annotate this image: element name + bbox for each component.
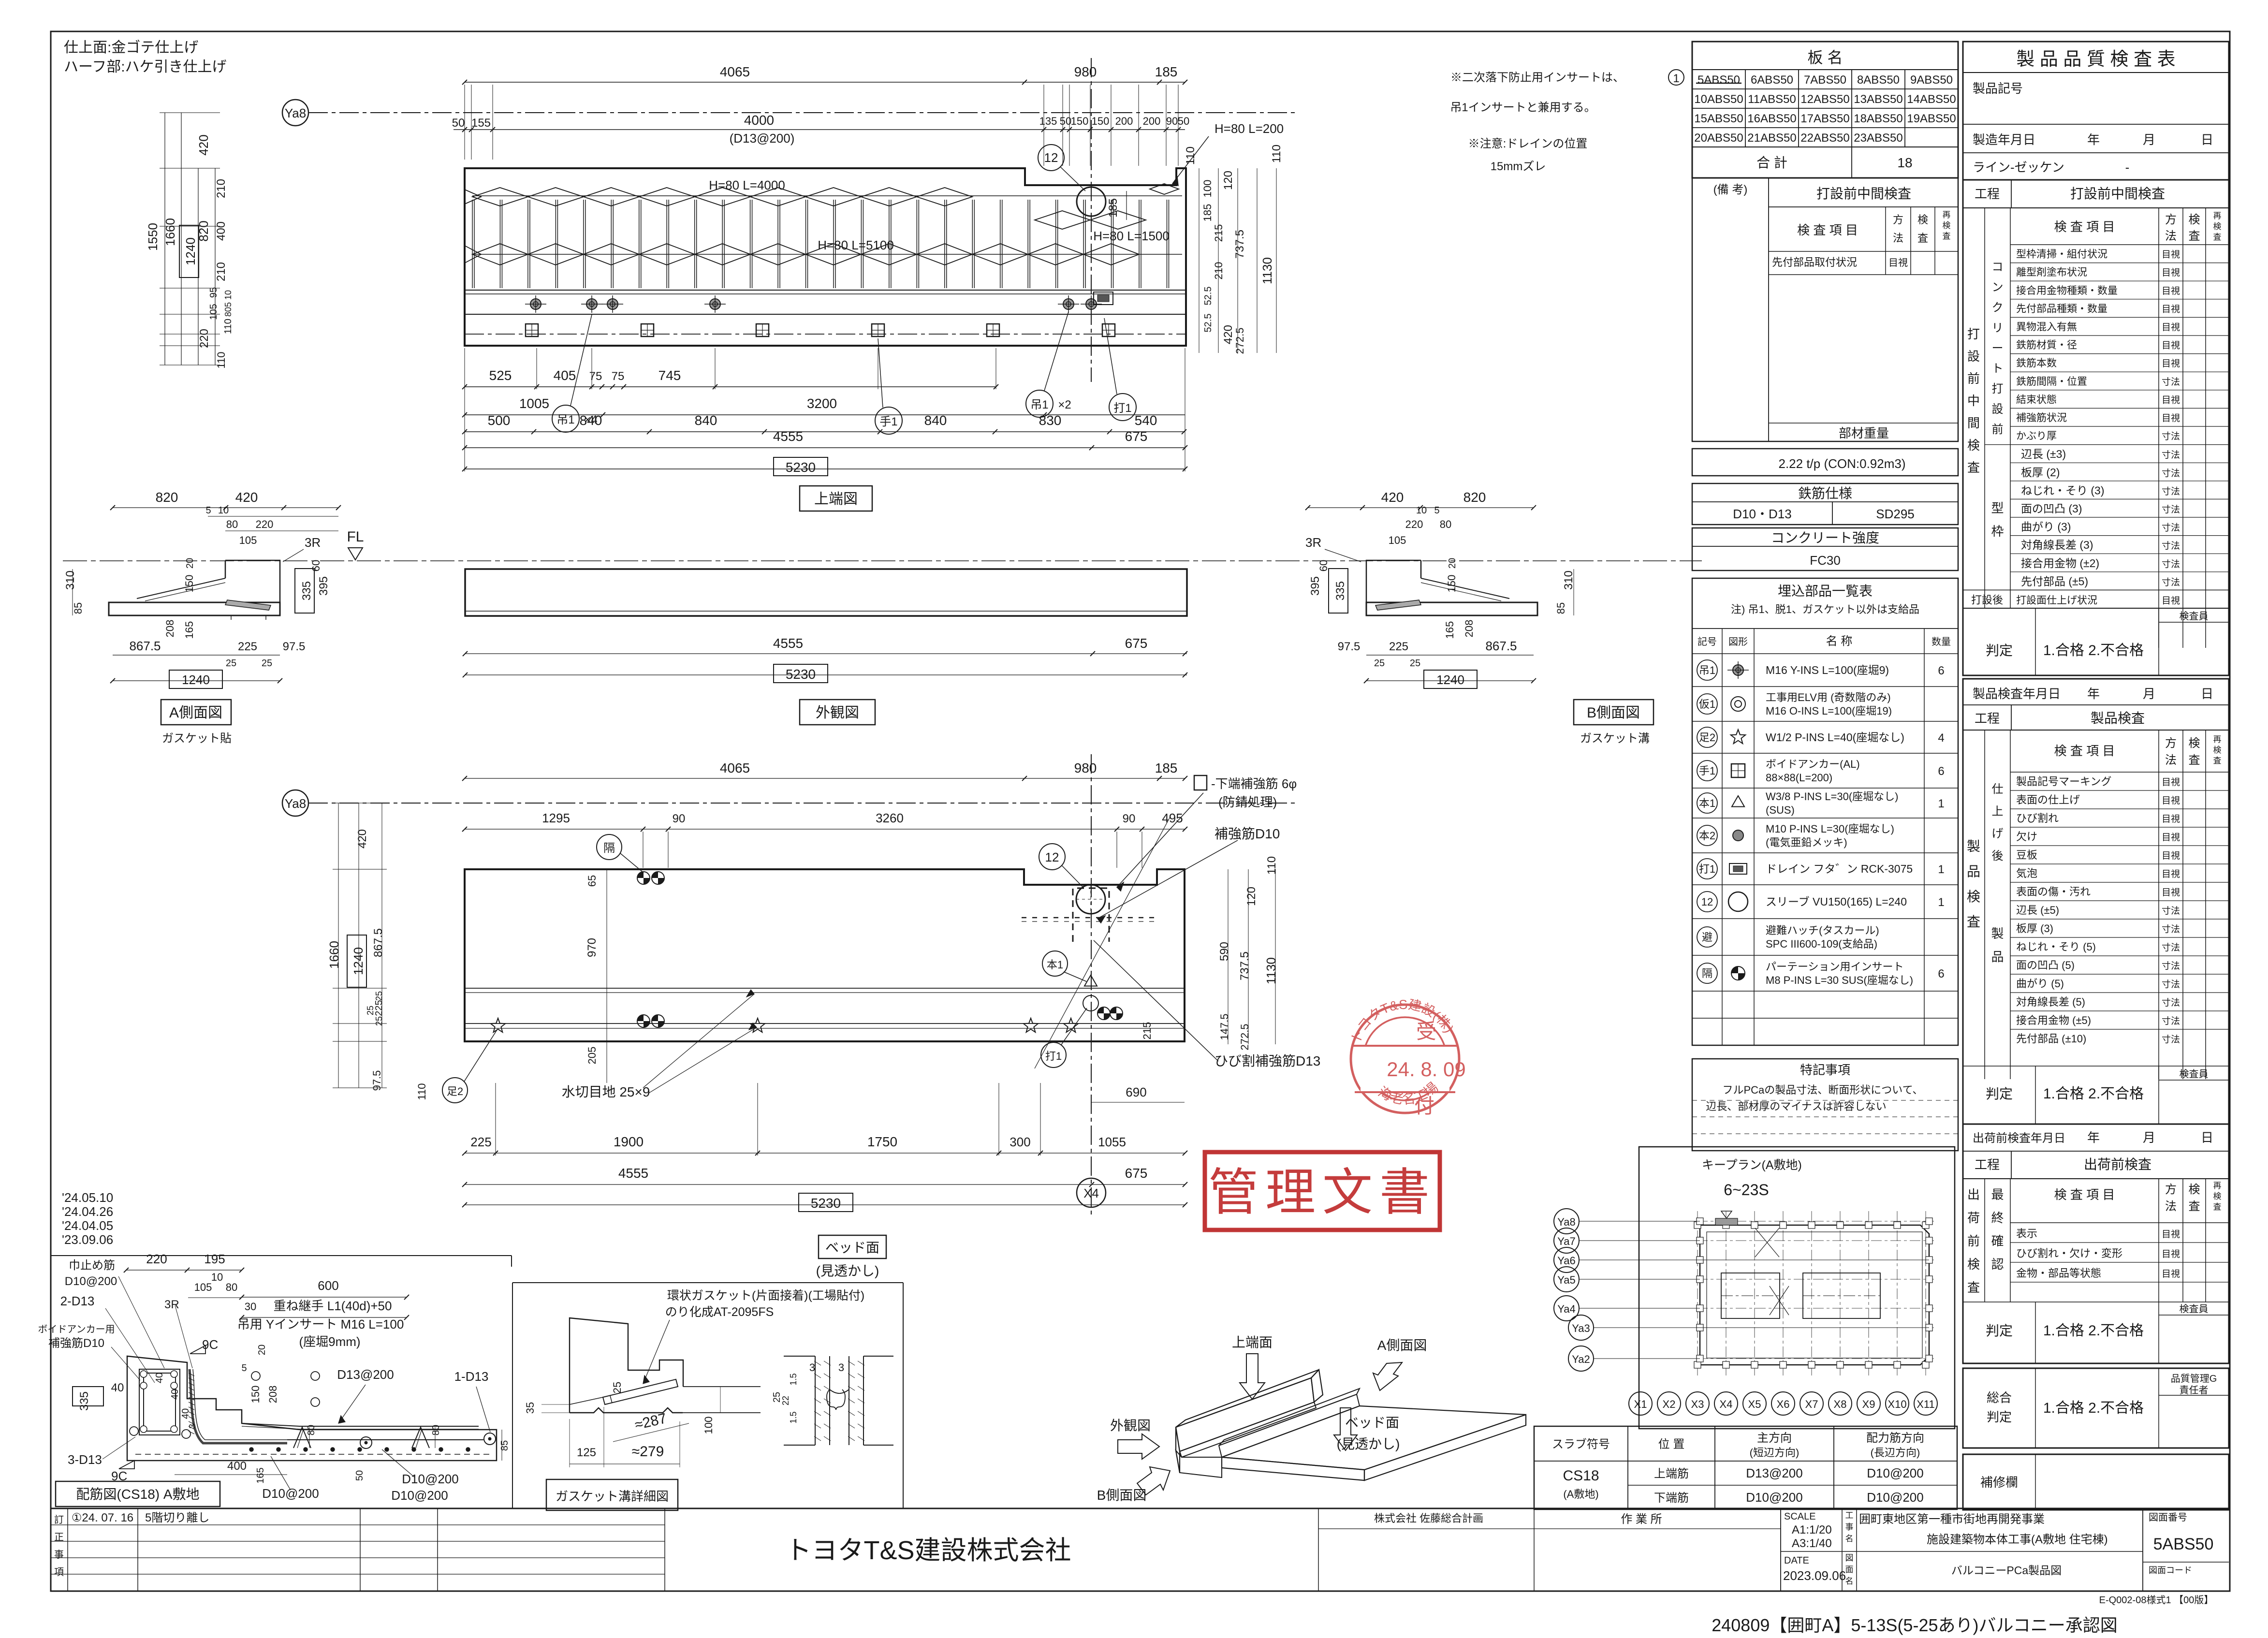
svg-text:事: 事: [54, 1549, 64, 1560]
svg-text:4065: 4065: [720, 760, 750, 775]
svg-text:1660: 1660: [163, 218, 177, 246]
svg-text:製: 製: [1991, 926, 2004, 941]
svg-text:737.5: 737.5: [1238, 951, 1251, 980]
svg-text:板厚 (3): 板厚 (3): [2016, 922, 2053, 935]
svg-text:表示: 表示: [2016, 1228, 2037, 1240]
svg-text:272.5: 272.5: [1234, 327, 1246, 354]
svg-text:ー: ー: [1992, 342, 2004, 355]
svg-text:年: 年: [2087, 1130, 2100, 1145]
svg-text:CS18: CS18: [1563, 1468, 1599, 1484]
svg-text:5ABS50: 5ABS50: [2153, 1535, 2214, 1553]
svg-text:型枠清掃・組付状況: 型枠清掃・組付状況: [2016, 249, 2107, 260]
svg-text:50: 50: [1178, 115, 1189, 127]
svg-text:2-D13: 2-D13: [60, 1294, 95, 1308]
svg-text:工事用ELV用 (奇数階のみ): 工事用ELV用 (奇数階のみ): [1766, 691, 1891, 703]
svg-text:690: 690: [1126, 1085, 1146, 1099]
svg-text:185: 185: [1107, 198, 1120, 218]
svg-text:(長辺方向): (長辺方向): [1871, 1447, 1920, 1459]
svg-text:X7: X7: [1805, 1398, 1818, 1410]
svg-text:上端図: 上端図: [814, 491, 858, 507]
svg-text:4555: 4555: [618, 1166, 648, 1181]
svg-text:(備 考): (備 考): [1713, 183, 1748, 196]
svg-text:接合用金物 (±5): 接合用金物 (±5): [2016, 1014, 2091, 1026]
svg-text:ク: ク: [1992, 301, 2004, 314]
svg-text:目視: 目視: [2162, 286, 2180, 296]
svg-text:査: 査: [1967, 460, 1980, 475]
svg-text:査: 査: [2189, 754, 2200, 767]
svg-text:205: 205: [586, 1047, 598, 1065]
svg-text:12ABS50: 12ABS50: [1800, 93, 1849, 106]
svg-text:745: 745: [658, 368, 681, 383]
svg-text:ひび割れ: ひび割れ: [2016, 812, 2059, 824]
svg-text:220: 220: [146, 1252, 167, 1266]
svg-text:寸法: 寸法: [2162, 1034, 2180, 1045]
svg-text:検 査 項 目: 検 査 項 目: [2054, 219, 2115, 234]
svg-text:中: 中: [1967, 394, 1980, 408]
svg-text:作 業 所: 作 業 所: [1621, 1513, 1662, 1526]
svg-text:675: 675: [1125, 429, 1148, 444]
svg-text:6~23S: 6~23S: [1724, 1181, 1769, 1199]
svg-text:1240: 1240: [1436, 673, 1464, 687]
svg-text:検査員: 検査員: [2180, 611, 2209, 622]
svg-text:100: 100: [1201, 180, 1214, 198]
svg-text:判定: 判定: [1986, 1323, 2013, 1338]
svg-text:400: 400: [215, 221, 228, 241]
svg-text:85: 85: [1555, 602, 1567, 614]
svg-text:110: 110: [1184, 146, 1197, 165]
svg-text:のり化成AT-2095FS: のり化成AT-2095FS: [665, 1305, 774, 1319]
svg-text:335: 335: [78, 1391, 91, 1411]
svg-text:先付部品取付状況: 先付部品取付状況: [1772, 256, 1857, 268]
svg-text:105: 105: [208, 304, 219, 320]
svg-text:D10@200: D10@200: [1746, 1490, 1802, 1505]
svg-text:間: 間: [1967, 416, 1980, 430]
svg-text:株式会社 佐藤総合計画: 株式会社 佐藤総合計画: [1374, 1512, 1483, 1524]
svg-text:3: 3: [809, 1361, 815, 1374]
svg-text:-下端補強筋 6φ: -下端補強筋 6φ: [1211, 776, 1297, 791]
svg-text:避: 避: [1702, 931, 1712, 943]
svg-text:名: 名: [1845, 1577, 1854, 1586]
svg-text:'24.05.10: '24.05.10: [62, 1190, 113, 1205]
svg-text:X1: X1: [1634, 1398, 1647, 1410]
svg-text:80: 80: [306, 1425, 317, 1435]
svg-text:足2: 足2: [1699, 731, 1715, 744]
svg-text:DATE: DATE: [1784, 1555, 1809, 1566]
svg-text:枠: 枠: [1991, 524, 2004, 539]
svg-text:出荷前検査年月日: 出荷前検査年月日: [1973, 1132, 2065, 1145]
svg-text:4555: 4555: [773, 429, 803, 444]
svg-text:隔: 隔: [603, 842, 615, 855]
svg-text:※注意:ドレインの位置: ※注意:ドレインの位置: [1468, 137, 1588, 150]
svg-text:仕: 仕: [1992, 783, 2004, 796]
svg-text:335: 335: [1334, 581, 1347, 600]
svg-text:査: 査: [1917, 232, 1928, 244]
svg-text:トヨタT&S建設株式会社: トヨタT&S建設株式会社: [785, 1536, 1071, 1565]
svg-text:H=80 L=5100: H=80 L=5100: [818, 238, 894, 252]
svg-text:検: 検: [2189, 213, 2200, 226]
svg-text:月: 月: [2143, 132, 2155, 147]
svg-text:バルコニーPCa製品図: バルコニーPCa製品図: [1951, 1564, 2062, 1577]
svg-text:先付部品 (±10): 先付部品 (±10): [2016, 1033, 2086, 1045]
svg-text:検: 検: [2189, 737, 2200, 750]
svg-text:1550: 1550: [146, 223, 160, 251]
svg-text:目視: 目視: [2162, 322, 2180, 333]
svg-text:1.合格 2.不合格: 1.合格 2.不合格: [2043, 1323, 2144, 1339]
svg-text:3R: 3R: [1305, 535, 1321, 550]
svg-text:405: 405: [554, 368, 576, 383]
svg-text:スラブ符号: スラブ符号: [1552, 1438, 1610, 1451]
svg-text:220: 220: [256, 518, 274, 530]
svg-text:420: 420: [1381, 490, 1404, 505]
svg-text:50: 50: [354, 1470, 365, 1481]
svg-text:3R: 3R: [305, 535, 321, 550]
svg-text:737.5: 737.5: [1233, 230, 1246, 259]
svg-text:215: 215: [1141, 1022, 1153, 1040]
svg-text:辺長 (±3): 辺長 (±3): [2021, 448, 2066, 460]
svg-text:25: 25: [262, 658, 272, 669]
svg-text:ひび割れ・欠け・変形: ひび割れ・欠け・変形: [2016, 1247, 2122, 1259]
svg-text:1.5: 1.5: [789, 1411, 798, 1423]
svg-text:40: 40: [111, 1381, 124, 1394]
svg-text:B側面図: B側面図: [1097, 1488, 1147, 1503]
svg-text:製 品 品 質 検 査 表: 製 品 品 質 検 査 表: [2016, 49, 2175, 70]
svg-text:目視: 目視: [2162, 869, 2180, 879]
svg-text:97.5: 97.5: [1338, 640, 1361, 653]
svg-text:目視: 目視: [2162, 595, 2180, 606]
svg-text:上端筋: 上端筋: [1654, 1467, 1689, 1480]
svg-text:90: 90: [1166, 115, 1178, 127]
svg-text:18ABS50: 18ABS50: [1854, 112, 1902, 125]
svg-text:項: 項: [54, 1567, 64, 1578]
svg-text:105: 105: [239, 534, 257, 546]
svg-text:最: 最: [1991, 1187, 2004, 1202]
svg-text:5230: 5230: [811, 1196, 841, 1211]
svg-text:25: 25: [1410, 658, 1420, 669]
svg-text:Ya3: Ya3: [1572, 1322, 1590, 1334]
svg-text:面の凹凸 (3): 面の凹凸 (3): [2021, 502, 2082, 515]
svg-text:数量: 数量: [1931, 636, 1951, 647]
svg-text:110: 110: [223, 319, 234, 334]
svg-text:打: 打: [1992, 382, 2004, 395]
svg-text:D10・D13: D10・D13: [1733, 507, 1791, 521]
svg-text:面の凹凸 (5): 面の凹凸 (5): [2016, 959, 2075, 971]
svg-text:スリーブ VU150(165) L=240: スリーブ VU150(165) L=240: [1766, 895, 1907, 908]
svg-text:(見透かし): (見透かし): [816, 1263, 879, 1278]
svg-text:対角線長差 (3): 対角線長差 (3): [2021, 539, 2093, 551]
svg-text:135: 135: [1039, 115, 1057, 127]
svg-text:335: 335: [300, 581, 313, 600]
svg-text:隔: 隔: [1702, 967, 1712, 980]
svg-text:5ABS50: 5ABS50: [1697, 73, 1740, 87]
svg-text:寸法: 寸法: [2162, 523, 2180, 533]
svg-text:1.5: 1.5: [789, 1373, 798, 1385]
svg-text:105: 105: [1389, 534, 1406, 546]
svg-text:X5: X5: [1748, 1398, 1761, 1410]
svg-text:60: 60: [310, 560, 322, 571]
svg-text:1: 1: [1938, 863, 1944, 876]
svg-text:60: 60: [1317, 560, 1330, 571]
svg-text:ン: ン: [1992, 281, 2004, 294]
svg-text:590: 590: [1218, 942, 1231, 961]
svg-text:A側面図: A側面図: [169, 705, 222, 721]
svg-text:100: 100: [702, 1417, 715, 1434]
svg-text:1660: 1660: [327, 941, 341, 969]
svg-text:後: 後: [1992, 849, 2004, 863]
svg-text:寸法: 寸法: [2162, 504, 2180, 515]
svg-text:80: 80: [1440, 518, 1451, 530]
svg-text:目視: 目視: [2162, 358, 2180, 369]
svg-text:Ya2: Ya2: [1572, 1353, 1590, 1365]
svg-text:25: 25: [374, 991, 384, 1001]
svg-text:配力筋方向: 配力筋方向: [1866, 1432, 1924, 1445]
svg-text:(SUS): (SUS): [1766, 804, 1795, 816]
svg-text:目視: 目視: [2162, 413, 2180, 424]
svg-text:検 査 項 目: 検 査 項 目: [1797, 223, 1858, 237]
svg-text:25: 25: [226, 658, 236, 669]
svg-text:4: 4: [1938, 731, 1944, 745]
svg-text:先付部品 (±5): 先付部品 (±5): [2021, 575, 2088, 587]
svg-text:120: 120: [1222, 171, 1235, 190]
svg-text:品質管理G: 品質管理G: [2171, 1373, 2217, 1384]
svg-text:結束状態: 結束状態: [2016, 394, 2057, 405]
svg-text:名 称: 名 称: [1826, 635, 1853, 648]
svg-text:5: 5: [241, 1363, 247, 1374]
svg-text:方: 方: [2165, 737, 2177, 750]
svg-text:検: 検: [1967, 438, 1980, 453]
svg-text:SPC III600-109(支給品): SPC III600-109(支給品): [1766, 938, 1877, 950]
svg-text:M16 Y-INS L=100(座堀9): M16 Y-INS L=100(座堀9): [1766, 664, 1889, 676]
svg-text:4065: 4065: [720, 64, 750, 79]
svg-text:20: 20: [257, 1345, 267, 1355]
svg-text:820: 820: [156, 490, 178, 505]
svg-text:10ABS50: 10ABS50: [1694, 93, 1743, 106]
svg-text:52.5: 52.5: [1203, 287, 1214, 306]
svg-text:867.5: 867.5: [129, 639, 161, 653]
svg-text:前: 前: [1967, 1234, 1980, 1248]
svg-text:再: 再: [2213, 1181, 2222, 1190]
svg-text:395: 395: [1309, 576, 1322, 596]
svg-text:125: 125: [577, 1446, 596, 1459]
svg-text:法: 法: [1893, 232, 1903, 244]
svg-text:外観図: 外観図: [1110, 1418, 1151, 1433]
svg-text:3: 3: [838, 1361, 844, 1374]
svg-text:14ABS50: 14ABS50: [1907, 93, 1956, 106]
svg-text:検: 検: [1967, 1257, 1980, 1272]
svg-text:避難ハッチ(タスカール): 避難ハッチ(タスカール): [1766, 924, 1879, 936]
svg-text:寸法: 寸法: [2162, 906, 2180, 916]
svg-text:1295: 1295: [542, 811, 570, 825]
svg-text:主方向: 主方向: [1757, 1432, 1792, 1445]
svg-text:820: 820: [1463, 490, 1486, 505]
svg-text:査: 査: [2213, 233, 2222, 242]
svg-text:目視: 目視: [2162, 395, 2180, 405]
svg-text:検: 検: [1943, 221, 1951, 230]
svg-text:吊1: 吊1: [556, 413, 574, 426]
svg-text:寸法: 寸法: [2162, 1016, 2180, 1026]
svg-text:方: 方: [1893, 214, 1903, 226]
svg-text:リ: リ: [1992, 322, 2004, 335]
svg-text:ねじれ・そり (5): ねじれ・そり (5): [2016, 941, 2096, 953]
svg-text:特記事項: 特記事項: [1800, 1063, 1850, 1077]
svg-text:製品検査: 製品検査: [2091, 711, 2145, 726]
svg-text:重ね継手 L1(40d)+50: 重ね継手 L1(40d)+50: [274, 1299, 392, 1313]
svg-text:検査員: 検査員: [2180, 1303, 2209, 1315]
svg-text:X4: X4: [1720, 1398, 1733, 1410]
svg-text:コ: コ: [1992, 261, 2004, 274]
svg-text:判定: 判定: [1986, 643, 2013, 658]
svg-text:製品記号マーキング: 製品記号マーキング: [2016, 775, 2111, 788]
svg-text:6: 6: [1938, 967, 1944, 980]
svg-text:月: 月: [2143, 687, 2155, 701]
svg-text:W1/2 P-INS L=40(座堀なし): W1/2 P-INS L=40(座堀なし): [1766, 731, 1904, 744]
svg-text:165: 165: [1444, 621, 1456, 639]
svg-text:980: 980: [1074, 760, 1097, 775]
svg-text:本2: 本2: [1699, 830, 1715, 842]
svg-text:年: 年: [2087, 132, 2100, 147]
svg-text:675: 675: [1125, 636, 1148, 651]
svg-text:目視: 目視: [2162, 1269, 2180, 1279]
svg-text:寸法: 寸法: [2162, 979, 2180, 990]
svg-text:パーテーション用インサート: パーテーション用インサート: [1766, 961, 1904, 973]
svg-text:110: 110: [416, 1083, 428, 1100]
svg-text:査: 査: [2189, 230, 2200, 243]
svg-text:ねじれ・そり (3): ねじれ・そり (3): [2021, 484, 2105, 497]
svg-text:対角線長差 (5): 対角線長差 (5): [2016, 996, 2085, 1008]
svg-text:図: 図: [1845, 1553, 1854, 1563]
svg-text:-: -: [2125, 160, 2130, 175]
svg-text:M10 P-INS L=30(座堀なし): M10 P-INS L=30(座堀なし): [1766, 823, 1894, 835]
svg-text:20: 20: [1447, 558, 1458, 569]
svg-text:220: 220: [198, 329, 211, 348]
svg-text:囲町東地区第一種市街地再開発事業: 囲町東地区第一種市街地再開発事業: [1859, 1513, 2045, 1526]
svg-text:420: 420: [356, 829, 369, 848]
svg-text:管理文書: 管理文書: [1208, 1165, 1436, 1221]
svg-text:コンクリート強度: コンクリート強度: [1771, 530, 1879, 545]
svg-text:査: 査: [1967, 1280, 1980, 1295]
svg-text:310: 310: [1562, 570, 1575, 590]
svg-text:ト: ト: [1992, 362, 2004, 375]
svg-text:補強筋D10: 補強筋D10: [1214, 826, 1280, 841]
svg-text:先付部品種類・数量: 先付部品種類・数量: [2016, 303, 2107, 314]
svg-text:工程: 工程: [1975, 711, 2000, 726]
svg-text:95: 95: [208, 287, 219, 298]
svg-text:525: 525: [489, 368, 512, 383]
svg-text:E-Q002-08様式1 【00版】: E-Q002-08様式1 【00版】: [2099, 1594, 2214, 1606]
svg-text:208: 208: [164, 620, 176, 638]
svg-text:A1:1/20: A1:1/20: [1792, 1523, 1832, 1536]
svg-text:D10@200: D10@200: [1867, 1490, 1923, 1505]
svg-text:吊1: 吊1: [1699, 664, 1715, 676]
svg-text:17ABS50: 17ABS50: [1800, 112, 1849, 125]
svg-text:B側面図: B側面図: [1587, 705, 1640, 721]
svg-text:22: 22: [781, 1396, 790, 1405]
svg-text:15ABS50: 15ABS50: [1694, 112, 1743, 125]
svg-text:22ABS50: 22ABS50: [1800, 132, 1849, 145]
svg-text:1750: 1750: [867, 1134, 897, 1149]
svg-text:25: 25: [1374, 658, 1385, 669]
svg-text:9C: 9C: [202, 1337, 218, 1352]
svg-text:1.合格 2.不合格: 1.合格 2.不合格: [2043, 1400, 2144, 1416]
svg-text:図面番号: 図面番号: [2149, 1512, 2187, 1523]
svg-text:M16 O-INS L=100(座堀19): M16 O-INS L=100(座堀19): [1766, 705, 1892, 717]
svg-text:150: 150: [183, 575, 195, 593]
svg-text:155: 155: [471, 117, 491, 130]
svg-text:120: 120: [1245, 887, 1258, 906]
svg-text:D13@200: D13@200: [337, 1367, 394, 1382]
svg-text:(A敷地): (A敷地): [1563, 1488, 1598, 1500]
svg-text:打1: 打1: [1699, 863, 1715, 875]
svg-text:打設前中間検査: 打設前中間検査: [2070, 186, 2165, 201]
svg-text:5230: 5230: [786, 460, 816, 475]
svg-text:10: 10: [223, 290, 233, 300]
svg-text:1055: 1055: [1098, 1135, 1126, 1149]
svg-text:辺長 (±5): 辺長 (±5): [2016, 904, 2059, 916]
svg-text:150: 150: [1092, 115, 1110, 127]
svg-text:50: 50: [452, 117, 465, 130]
svg-text:10: 10: [211, 1271, 223, 1283]
svg-text:85: 85: [72, 602, 84, 614]
svg-text:310: 310: [64, 570, 77, 590]
svg-text:225: 225: [1389, 640, 1408, 653]
svg-text:867.5: 867.5: [372, 928, 385, 957]
svg-text:3: 3: [188, 1424, 197, 1429]
svg-text:ひび割補強筋D13: ひび割補強筋D13: [1214, 1053, 1320, 1068]
svg-text:寸法: 寸法: [2162, 541, 2180, 551]
svg-text:仕上面:金ゴテ仕上げ: 仕上面:金ゴテ仕上げ: [64, 40, 198, 56]
svg-text:X9: X9: [1862, 1398, 1875, 1410]
svg-text:830: 830: [1039, 413, 1062, 428]
svg-text:272.5: 272.5: [1239, 1024, 1251, 1050]
svg-text:寸法: 寸法: [2162, 486, 2180, 497]
svg-text:巾止め筋: 巾止め筋: [69, 1259, 115, 1272]
svg-text:5階切り離し: 5階切り離し: [145, 1511, 209, 1524]
svg-text:195: 195: [204, 1252, 225, 1266]
svg-text:6: 6: [1938, 664, 1944, 677]
svg-text:15mmズレ: 15mmズレ: [1491, 160, 1546, 173]
svg-text:1130: 1130: [1264, 957, 1278, 984]
svg-text:責任者: 責任者: [2180, 1385, 2209, 1396]
svg-text:打: 打: [1967, 327, 1980, 341]
svg-text:部材重量: 部材重量: [1839, 426, 1889, 440]
svg-text:目視: 目視: [2162, 340, 2180, 351]
svg-text:25: 25: [366, 1006, 375, 1015]
svg-text:Ya7: Ya7: [1557, 1235, 1576, 1247]
svg-text:215: 215: [1213, 224, 1225, 242]
svg-text:×2: ×2: [1058, 398, 1071, 411]
svg-text:本1: 本1: [1047, 959, 1063, 971]
svg-text:ボイドアンカー(AL): ボイドアンカー(AL): [1766, 758, 1860, 770]
svg-text:9ABS50: 9ABS50: [1910, 73, 1953, 87]
svg-text:(短辺方向): (短辺方向): [1750, 1447, 1800, 1459]
svg-text:検 査 項 目: 検 査 項 目: [2054, 744, 2115, 758]
svg-text:Ya4: Ya4: [1557, 1303, 1576, 1315]
svg-text:1: 1: [1938, 797, 1944, 810]
svg-text:記号: 記号: [1697, 636, 1717, 647]
svg-text:寸法: 寸法: [2162, 468, 2180, 479]
svg-text:FL: FL: [347, 529, 364, 545]
svg-text:異物混入有無: 異物混入有無: [2016, 322, 2077, 333]
svg-text:製品検査年月日: 製品検査年月日: [1973, 687, 2061, 701]
svg-text:5: 5: [1434, 505, 1439, 516]
svg-text:675: 675: [1125, 1166, 1148, 1181]
svg-text:外観図: 外観図: [816, 705, 859, 721]
svg-text:仮1: 仮1: [1699, 698, 1715, 710]
svg-text:FC30: FC30: [1810, 553, 1841, 568]
svg-text:H=80 L=200: H=80 L=200: [1214, 121, 1284, 136]
svg-text:板 名: 板 名: [1808, 49, 1843, 66]
svg-text:25: 25: [374, 1016, 384, 1026]
svg-text:6: 6: [1938, 765, 1944, 778]
